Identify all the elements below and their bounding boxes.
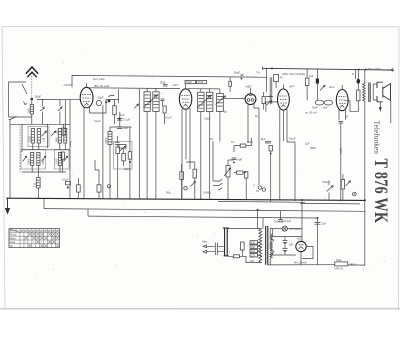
svg-text:NSF 51: NSF 51	[335, 266, 344, 270]
wire row mid	[22, 149, 70, 151]
svg-text:4µF: 4µF	[323, 105, 328, 109]
table chart bottom left	[9, 229, 60, 248]
svg-text:AF7: AF7	[172, 83, 179, 87]
wire mains top	[227, 228, 261, 230]
filter shield box row2 right	[55, 150, 70, 170]
coil L1 1018	[31, 129, 34, 144]
filter shield box row1	[28, 127, 49, 147]
output transformer core	[368, 83, 370, 103]
padder circle	[96, 100, 101, 105]
resistor 4013 under tube1	[97, 185, 101, 192]
trimmer C arrows row1	[42, 131, 47, 136]
svg-text:AB2: AB2	[245, 85, 252, 89]
volume potentiometer	[226, 166, 230, 178]
svg-text:Ferr. Lack: Ferr. Lack	[93, 77, 105, 81]
wire top if link	[188, 88, 220, 90]
cap 50uF above T1	[163, 85, 168, 87]
resistor 50uF horizontal	[237, 171, 244, 174]
wire L4 top	[64, 100, 66, 129]
arrow in af cluster	[191, 181, 196, 186]
wire B+ drop to rectifier	[301, 200, 303, 242]
svg-text:0,1µF: 0,1µF	[285, 219, 292, 223]
under-chassis detail tube2 cathode	[180, 172, 184, 180]
tube V4 pins	[280, 109, 287, 201]
wire grid line to tube1	[37, 98, 80, 100]
svg-text:5000: 5000	[27, 158, 31, 164]
svg-text:1µ: 1µ	[56, 130, 59, 134]
svg-text:50µF: 50µF	[234, 71, 240, 75]
wire heater feed from bus3	[262, 218, 264, 229]
svg-text:ca. 30 mA: ca. 30 mA	[305, 111, 317, 115]
antenna arrow	[26, 67, 38, 74]
coil det	[217, 94, 224, 112]
svg-text:(4V, 55mA): (4V, 55mA)	[294, 260, 307, 264]
power transformer primary winding	[259, 229, 262, 263]
wire L down-left	[345, 101, 358, 112]
tube V4 grid network	[262, 97, 265, 104]
IF transformer T1 can left	[144, 92, 150, 112]
IF T1 tuning arrow	[144, 95, 158, 108]
cap 2uF on heater drop	[315, 223, 321, 225]
ground bus main	[6, 198, 170, 199]
resistor 450 vertical	[245, 172, 248, 179]
wire heater drop	[317, 218, 319, 265]
IF T1 pins	[147, 89, 156, 200]
wire bus2 drop	[43, 199, 45, 209]
resistor with dot mid	[128, 152, 131, 159]
terminal circle left	[107, 185, 110, 188]
svg-text:R: R	[352, 72, 354, 76]
svg-text:5101: 5101	[55, 158, 59, 164]
svg-text:5µ: 5µ	[224, 110, 227, 114]
svg-text:T.A.: T.A.	[256, 71, 261, 75]
svg-text:Tona: Tona	[68, 141, 72, 147]
svg-text:ACH1: ACH1	[63, 83, 73, 87]
svg-text:0,5MΩ: 0,5MΩ	[203, 191, 211, 195]
secondary winding HT	[270, 241, 272, 251]
antenna stem dashed	[31, 73, 33, 98]
tone cap cluster	[341, 180, 344, 190]
svg-text:Lang: Lang	[10, 241, 16, 244]
svg-text:4µF: 4µF	[309, 74, 314, 78]
svg-text:125: 125	[251, 253, 256, 257]
varcap arrow row2 left	[23, 156, 27, 161]
svg-text:1µF: 1µF	[289, 243, 294, 247]
mains plug prongs	[203, 245, 212, 253]
filter cap dark bead	[316, 79, 319, 84]
svg-text:500: 500	[27, 108, 31, 113]
svg-text:GW: GW	[250, 259, 255, 263]
field coil resistor box	[335, 262, 348, 266]
trimmer cap osc1	[40, 107, 44, 111]
terminal bottom right	[353, 192, 357, 196]
cap 0.1uF under bus	[278, 220, 283, 222]
oscillator shield box	[114, 142, 133, 170]
svg-text:5MΩ: 5MΩ	[247, 140, 253, 144]
filter shield box row2 left	[21, 150, 46, 170]
svg-text:220V: 220V	[339, 148, 343, 154]
wire 355 drop	[355, 69, 357, 79]
heater return line	[268, 264, 365, 266]
small coil rect right	[357, 90, 360, 101]
svg-text:0,1µF: 0,1µF	[124, 118, 131, 122]
IF transformer T1 can right	[153, 92, 159, 112]
svg-text:50µF: 50µF	[160, 81, 166, 85]
coil L2 516	[37, 129, 40, 144]
svg-text:2µF: 2µF	[322, 222, 327, 226]
svg-text:T 876 WK: T 876 WK	[371, 159, 393, 224]
coil L3 906	[58, 129, 61, 144]
cathode RC V4	[265, 142, 271, 144]
svg-text:150: 150	[251, 245, 256, 249]
HT supply line top	[262, 68, 394, 70]
wire ta link	[213, 141, 219, 186]
wire row1 bottoms	[33, 143, 66, 150]
svg-text:TA: TA	[256, 189, 259, 193]
svg-text:2x0,25µF: 2x0,25µF	[274, 219, 285, 223]
svg-text:0,1: 0,1	[231, 140, 235, 144]
wire det verticals	[266, 77, 278, 112]
svg-text:Mittel: Mittel	[10, 237, 16, 240]
wire long vert 137.5	[138, 89, 140, 199]
node dot T1	[149, 100, 151, 102]
coil L5 5000	[31, 153, 34, 166]
wire bus2 drop to PSU	[257, 210, 259, 229]
svg-text:20µF: 20µF	[186, 80, 192, 84]
svg-text:Mitt. HF-Lack: Mitt. HF-Lack	[94, 84, 110, 88]
electrolytic ovals	[315, 100, 324, 105]
wire band lower	[22, 171, 66, 173]
cap 50uF top line	[241, 74, 243, 78]
mid cluster caps	[115, 143, 120, 145]
mains caps	[215, 243, 217, 256]
svg-text:Rundf.: Rundf.	[10, 234, 18, 237]
varcap arrow row2 right	[42, 156, 46, 161]
wire band verticals	[21, 124, 23, 152]
resistor R osc	[113, 106, 116, 115]
output transformer primary coil	[363, 83, 366, 101]
dial lamp	[282, 226, 287, 231]
wire bus2	[44, 209, 366, 212]
svg-text:50µ: 50µ	[166, 191, 171, 195]
coil L4	[64, 129, 67, 144]
varcap arrow row2 far right	[64, 156, 68, 161]
primary tap boxed labels	[250, 241, 258, 244]
wire mitt line	[87, 87, 180, 90]
V5 grid comp	[339, 122, 344, 202]
tube V1 ACH1	[80, 87, 93, 108]
wire top hf line	[72, 75, 267, 87]
coil det arrow	[216, 96, 226, 105]
svg-text:8µF: 8µF	[261, 137, 266, 141]
coil det pins	[219, 89, 221, 142]
IF T2 tuning arrow	[197, 95, 211, 108]
svg-text:µF: µF	[345, 115, 348, 119]
tube V2 pins	[182, 108, 190, 199]
IF transformer T2 can right	[207, 92, 213, 111]
wire long vert 102.9	[102, 105, 104, 199]
cap 0,1uF	[117, 119, 123, 121]
node antenna coupling dot	[31, 98, 34, 101]
svg-text:1018: 1018	[27, 136, 31, 142]
potentiometer P1	[119, 145, 126, 149]
terminal TA 2	[262, 188, 265, 191]
mains switch double pole	[224, 228, 226, 256]
wavy adjust mark	[109, 95, 115, 98]
coil L8 132	[37, 178, 41, 189]
wire bus3 drop	[87, 209, 89, 216]
svg-text:0,1µF: 0,1µF	[165, 116, 172, 120]
tube V1 pins	[83, 107, 85, 198]
svg-text:TA: TA	[10, 245, 13, 248]
transformer core	[265, 226, 267, 265]
tube V6 AZ1	[296, 241, 306, 251]
svg-text:5013: 5013	[124, 167, 130, 171]
wire mid links	[110, 127, 132, 199]
IF T2 pins	[201, 89, 210, 200]
page bottom shadow edge	[0, 308, 400, 310]
wire mains bottom with fuse	[227, 255, 246, 257]
svg-text:0,5µF: 0,5µF	[322, 180, 329, 184]
tube V5 AL4	[336, 90, 348, 111]
wire out trans top/bottom	[364, 70, 366, 266]
detector RC network	[240, 144, 246, 147]
svg-text:1µF: 1µF	[305, 142, 310, 146]
wire ht drop 263	[266, 68, 268, 92]
resistor left of tube1	[62, 128, 65, 135]
junction dots on buses	[257, 209, 259, 211]
rectifier loop top	[273, 229, 302, 255]
tube V3 AB2 duodiode	[245, 94, 256, 105]
speaker magnet	[377, 82, 383, 102]
svg-text:3000: 3000	[104, 137, 108, 143]
resistor 51013	[122, 154, 126, 161]
tube V4 AF7	[278, 89, 290, 110]
svg-text:906: 906	[54, 137, 58, 142]
boxed label 2	[197, 80, 207, 83]
svg-text:AL4: AL4	[328, 85, 335, 89]
svg-text:220V, 12(W): 220V, 12(W)	[366, 67, 380, 71]
scan speckle noise	[35, 41, 385, 280]
tube V5 pins	[339, 110, 345, 121]
resistor det top	[229, 81, 232, 86]
coil L6 51000	[37, 153, 40, 166]
svg-text:5000: 5000	[310, 146, 316, 150]
svg-text:AZ1: AZ1	[296, 237, 303, 241]
resistor right of T1	[163, 106, 166, 113]
svg-text:180V, 120 mA 5(90): 180V, 120 mA 5(90)	[282, 72, 305, 76]
grid stop resistor V4	[287, 142, 295, 201]
switch earth	[9, 117, 17, 120]
trimmer arrow osc mid	[134, 104, 139, 109]
ganged switch dashed link	[19, 126, 21, 172]
wire osc link	[90, 100, 119, 114]
wire bus1c short	[300, 202, 360, 205]
resistor 132 under tube1	[77, 185, 81, 192]
HT line end tick	[391, 68, 393, 71]
V6 connections	[301, 247, 313, 265]
svg-text:Rote: Rote	[336, 258, 342, 262]
trimmer cap osc2	[58, 107, 62, 111]
svg-text:4V 0,65A: 4V 0,65A	[290, 227, 301, 231]
svg-text:110: 110	[251, 249, 256, 253]
voltage selector block	[241, 242, 245, 250]
svg-text:0,1µF: 0,1µF	[62, 178, 69, 182]
coil 3000 osc	[108, 132, 112, 145]
resistor with dot left-bottom	[65, 182, 70, 185]
wire diode input	[223, 97, 245, 99]
svg-text:0,1µF: 0,1µF	[289, 137, 296, 141]
svg-text:50µF: 50µF	[35, 95, 41, 99]
ground symbol	[7, 198, 9, 208]
switch antenna	[22, 84, 27, 94]
secondary wires	[270, 228, 274, 265]
svg-text:1µF: 1µF	[120, 113, 125, 117]
choke bead dark	[357, 79, 361, 84]
coil L7 51013	[58, 153, 61, 166]
secondary winding top 4V	[270, 234, 272, 240]
decoupling box	[274, 75, 279, 82]
boxed label 1	[185, 80, 196, 83]
screen feed resistor	[305, 78, 309, 86]
cap between T1	[161, 99, 165, 101]
speaker cone	[383, 84, 390, 100]
switch diagonal output	[320, 85, 325, 90]
svg-text:Bereich: Bereich	[10, 230, 19, 233]
speaker voice wire	[380, 101, 391, 123]
svg-text:0,1µF: 0,1µF	[94, 119, 101, 123]
IF transformer T2 can left	[198, 92, 204, 111]
secondary winding bottom 4V	[270, 252, 272, 258]
svg-text:50µF: 50µF	[312, 105, 318, 109]
resistor left2	[61, 152, 64, 159]
tap wires	[258, 242, 262, 255]
cap 100uF	[117, 127, 123, 128]
svg-text:TA: TA	[210, 137, 213, 141]
node dots osc	[108, 100, 111, 103]
wire bus3	[88, 216, 318, 218]
cap 8uF avc	[232, 158, 237, 160]
svg-text:2µ: 2µ	[255, 114, 258, 118]
antenna coil	[30, 105, 33, 115]
svg-text:220: 220	[251, 241, 256, 245]
svg-text:17µF: 17µF	[198, 80, 204, 84]
smoothing cap stack 1	[283, 241, 288, 244]
terminal TA 1	[258, 186, 261, 189]
wire vert 99->177	[95, 160, 99, 177]
svg-text:Telefunken: Telefunken	[373, 121, 381, 155]
fuse	[234, 255, 240, 258]
tube V3 pins	[248, 104, 259, 186]
wire osc vert	[118, 89, 120, 103]
node dot osc	[105, 101, 107, 103]
switch contacts TA	[219, 179, 223, 190]
svg-text:AF7: AF7	[288, 84, 295, 88]
tube V2 top cap wire	[185, 84, 187, 89]
HT line start tick	[262, 67, 264, 71]
wire row2 bottoms to bus	[32, 166, 60, 173]
svg-text:100: 100	[124, 126, 129, 130]
svg-text:516: 516	[41, 137, 45, 142]
svg-text:2500: 2500	[350, 262, 356, 266]
tube V2 AF7	[179, 89, 191, 109]
svg-text:8µF: 8µF	[238, 158, 243, 162]
svg-text:0,5µF: 0,5µF	[204, 117, 211, 121]
wire band top	[10, 123, 70, 125]
svg-text:Netz: Netz	[202, 240, 208, 244]
wire antenna left branch	[9, 82, 32, 117]
svg-text:132: 132	[33, 182, 37, 187]
wire bus1b short	[218, 200, 305, 203]
